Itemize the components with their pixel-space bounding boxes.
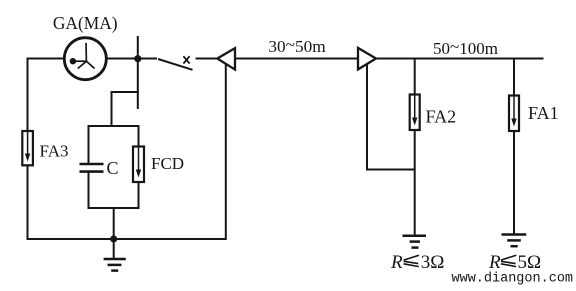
svg-text:FA3: FA3: [40, 142, 69, 161]
svg-text:R: R: [390, 252, 403, 273]
svg-text:30~50m: 30~50m: [268, 35, 326, 56]
svg-text:FCD: FCD: [151, 154, 184, 173]
svg-text:5Ω: 5Ω: [518, 252, 542, 273]
svg-text:50~100m: 50~100m: [433, 37, 498, 58]
svg-text:FA2: FA2: [426, 107, 457, 127]
svg-text:FA1: FA1: [528, 103, 559, 123]
svg-text:GA(MA): GA(MA): [53, 13, 118, 33]
svg-text:3Ω: 3Ω: [421, 252, 445, 273]
svg-text:www.diangon.com: www.diangon.com: [452, 272, 574, 287]
svg-text:C: C: [107, 158, 119, 178]
svg-text:R: R: [488, 252, 501, 273]
